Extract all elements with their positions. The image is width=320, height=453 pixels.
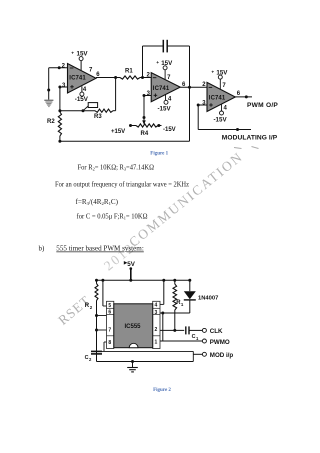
svg-text:3: 3 (155, 310, 158, 316)
svg-text:15V: 15V (161, 60, 173, 67)
svg-text:4: 4 (155, 303, 158, 309)
svg-text:+: + (211, 70, 214, 75)
svg-text:555 timer based PWM system:: 555 timer based PWM system: (56, 245, 144, 253)
svg-text:5V: 5V (127, 261, 135, 268)
svg-text:PWM O/P: PWM O/P (247, 102, 278, 109)
svg-text:+: + (156, 61, 159, 66)
svg-text:For R2= 10KΩ; R3=47.14KΩ: For R2= 10KΩ; R3=47.14KΩ (78, 163, 155, 171)
svg-text:CLK: CLK (210, 328, 223, 335)
svg-text:-15V: -15V (214, 116, 228, 123)
svg-text:MOD i/p: MOD i/p (210, 352, 234, 359)
svg-text:R4: R4 (141, 131, 149, 137)
svg-text:IC741: IC741 (209, 96, 226, 102)
svg-text:b): b) (39, 245, 46, 253)
svg-text:For an output frequency of tri: For an output frequency of triangular wa… (55, 181, 189, 189)
svg-text:R1: R1 (125, 68, 133, 74)
svg-text:R3: R3 (94, 114, 102, 120)
svg-text:-15V: -15V (158, 106, 172, 113)
svg-text:5: 5 (108, 303, 111, 309)
svg-text:2: 2 (155, 327, 158, 333)
svg-text:Figure 2: Figure 2 (153, 388, 171, 393)
svg-text:-15V: -15V (75, 96, 89, 103)
svg-text:IC741: IC741 (69, 75, 86, 81)
svg-text:PWMO: PWMO (210, 339, 230, 346)
svg-text:f=R3/(4R2R1C): f=R3/(4R2R1C) (76, 198, 119, 206)
svg-text:+: + (71, 52, 74, 57)
svg-text:15V: 15V (77, 50, 89, 57)
svg-text:MODULATING I/P: MODULATING I/P (222, 135, 278, 142)
svg-text:+15V: +15V (111, 129, 125, 135)
svg-text:8: 8 (108, 340, 111, 346)
svg-text:C: C (192, 334, 196, 340)
svg-text:6: 6 (108, 310, 111, 316)
svg-text:15V: 15V (216, 69, 228, 76)
svg-text:7: 7 (108, 328, 111, 334)
svg-text:1N4007: 1N4007 (198, 296, 218, 302)
svg-text:-15V: -15V (163, 127, 176, 133)
svg-text:for C = 0.05μ F;R1= 10KΩ: for C = 0.05μ F;R1= 10KΩ (77, 212, 148, 220)
svg-text:R2: R2 (47, 119, 55, 125)
svg-text:1: 1 (155, 339, 158, 345)
svg-text:Figure 1: Figure 1 (150, 151, 168, 156)
svg-text:IC555: IC555 (125, 324, 142, 330)
svg-text:C: C (85, 355, 89, 361)
svg-text:IC741: IC741 (153, 86, 170, 92)
